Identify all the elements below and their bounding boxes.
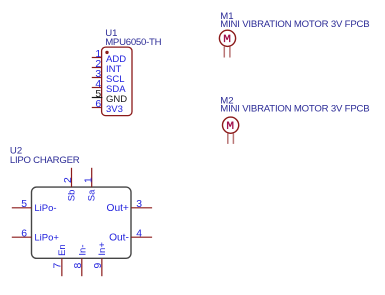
svg-text:LiPo-: LiPo-	[34, 203, 56, 214]
svg-text:En: En	[57, 244, 68, 256]
svg-text:5: 5	[21, 199, 27, 210]
svg-text:In+: In+	[97, 242, 108, 256]
svg-text:LiPo+: LiPo+	[34, 233, 59, 244]
svg-text:Sa: Sa	[87, 189, 98, 201]
svg-text:3: 3	[136, 199, 142, 210]
svg-text:Out+: Out+	[107, 203, 129, 214]
svg-text:MINI VIBRATION MOTOR 3V FPCB: MINI VIBRATION MOTOR 3V FPCB	[220, 19, 369, 30]
svg-text:9: 9	[93, 262, 104, 268]
svg-text:In-: In-	[78, 245, 89, 256]
svg-text:MINI VIBRATION MOTOR 3V FPCB: MINI VIBRATION MOTOR 3V FPCB	[220, 104, 369, 115]
svg-text:3V3: 3V3	[106, 104, 123, 115]
svg-text:2: 2	[63, 177, 74, 183]
svg-text:7: 7	[53, 262, 64, 268]
svg-text:Out-: Out-	[109, 233, 129, 244]
svg-text:8: 8	[73, 262, 84, 268]
svg-text:6: 6	[95, 99, 101, 110]
svg-text:MPU6050-TH: MPU6050-TH	[105, 37, 161, 48]
svg-text:4: 4	[136, 229, 142, 240]
svg-text:6: 6	[21, 228, 27, 239]
svg-text:Sb: Sb	[66, 190, 77, 202]
svg-text:1: 1	[84, 177, 95, 183]
svg-text:LIPO CHARGER: LIPO CHARGER	[10, 155, 80, 166]
